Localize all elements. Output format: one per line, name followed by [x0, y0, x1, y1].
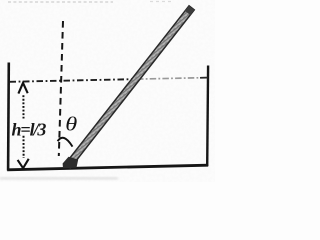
svg-text:h=l/3: h=l/3 — [12, 119, 47, 139]
svg-text:θ: θ — [65, 113, 77, 135]
